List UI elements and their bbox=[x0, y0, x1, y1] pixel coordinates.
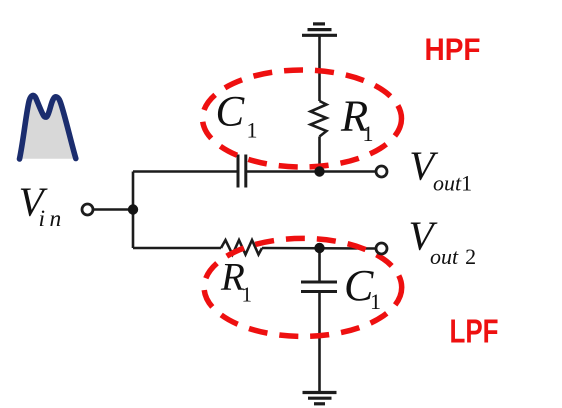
node: LPF output junction bbox=[314, 243, 324, 253]
svg-text:1: 1 bbox=[363, 121, 374, 146]
wire: resistor R1 bottom to HPF output node bbox=[318, 137, 321, 172]
node: HPF output junction bbox=[314, 166, 324, 176]
label C1 (top) bbox=[216, 89, 258, 143]
label Vin bbox=[19, 179, 66, 232]
svg-text:out1: out1 bbox=[433, 171, 472, 196]
capacitor C1 (top, series) bbox=[238, 155, 246, 188]
svg-text:in: in bbox=[39, 206, 66, 232]
terminal: Vin bbox=[82, 204, 93, 215]
filter response icon bbox=[20, 95, 76, 159]
wire: capacitor C1 bottom plate to ground bbox=[318, 292, 321, 393]
terminal: Vout2 bbox=[376, 243, 387, 254]
svg-text:C: C bbox=[216, 89, 246, 136]
svg-text:LPF: LPF bbox=[450, 313, 499, 350]
wire: Vin terminal stub bbox=[92, 208, 133, 211]
terminal: Vout1 bbox=[376, 166, 387, 177]
svg-text:1: 1 bbox=[370, 289, 381, 314]
svg-text:out2: out2 bbox=[430, 244, 476, 269]
ground (bottom) bbox=[303, 393, 337, 404]
wire: LPF node down to capacitor C1 top plate bbox=[318, 248, 321, 281]
label Vout2 bbox=[409, 213, 477, 269]
ground (top) bbox=[302, 24, 337, 35]
LPF enclosure (red dashed ellipse) bbox=[204, 238, 402, 336]
svg-text:HPF: HPF bbox=[425, 31, 481, 67]
svg-text:1: 1 bbox=[247, 118, 258, 143]
resistor R1 (top, vertical) bbox=[311, 101, 327, 137]
svg-text:1: 1 bbox=[242, 283, 253, 307]
label C1 (bottom) bbox=[344, 261, 381, 314]
wire: resistor R1 to Vout2 terminal bbox=[262, 247, 377, 250]
wire: Vin corner to resistor R1 (bottom) bbox=[133, 247, 221, 250]
wire: vertical from HPF branch down to Vin node level bbox=[132, 172, 135, 249]
label Vout1 bbox=[409, 143, 472, 196]
wire: Vin corner to capacitor C1 left plate bbox=[133, 170, 238, 173]
wire: top ground to resistor R1 bbox=[318, 35, 321, 101]
HPF enclosure (red dashed ellipse) bbox=[203, 70, 402, 167]
label R1 (bottom) bbox=[220, 256, 252, 307]
wire: capacitor C1 right plate to Vout1 terminal bbox=[246, 170, 377, 173]
capacitor C1 (bottom, shunt) bbox=[301, 282, 337, 292]
resistor R1 (bottom, horizontal) bbox=[221, 240, 262, 255]
label R1 (top) bbox=[340, 91, 374, 147]
node: Vin junction bbox=[128, 204, 138, 214]
